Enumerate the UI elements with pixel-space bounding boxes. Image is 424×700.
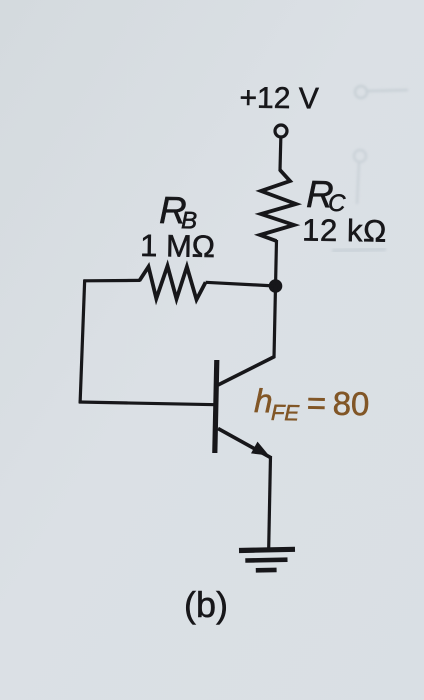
transistor Q1 base bar (215, 360, 217, 453)
svg-text:FE: FE (271, 400, 300, 426)
wire RB right lead to node (206, 282, 276, 286)
wire RB left lead (84, 279, 141, 283)
label hFE = 80 (254, 382, 370, 427)
resistor RB (140, 266, 206, 300)
transistor Q1 emitter arrowhead (251, 442, 269, 456)
svg-text:= 80: = 80 (300, 384, 370, 422)
node collector junction (269, 279, 283, 293)
wire RC to node (276, 240, 277, 287)
svg-text:(b): (b) (184, 584, 228, 625)
svg-text:1 MΩ: 1 MΩ (140, 228, 215, 264)
wire emitter to ground (269, 456, 271, 548)
transistor Q1 emitter lead (218, 429, 271, 458)
wire terminal to RC (278, 139, 282, 172)
ghost show-through terminal right middle (354, 150, 366, 204)
svg-text:12 kΩ: 12 kΩ (302, 213, 387, 249)
label RB (159, 190, 198, 235)
ground (239, 549, 295, 570)
wire base horizontal (79, 402, 216, 405)
ghost show-through circle top right (355, 86, 408, 98)
ghost show-through dash right (332, 249, 386, 251)
terminal +12V (275, 125, 287, 137)
label RC (306, 174, 347, 217)
wire feedback left vertical (80, 279, 85, 403)
wire node to collector corner (274, 286, 276, 358)
svg-text:+12 V: +12 V (239, 81, 319, 115)
transistor Q1 collector lead (218, 357, 275, 386)
resistor RC (260, 170, 296, 241)
